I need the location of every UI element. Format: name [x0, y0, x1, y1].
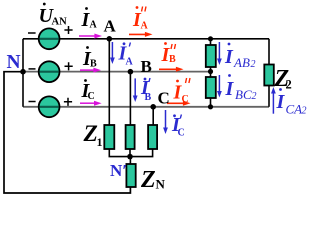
wire Z2 branch	[268, 39, 270, 65]
svg-text:N: N	[156, 176, 166, 191]
svg-text:B: B	[169, 54, 176, 65]
svg-text:B: B	[141, 57, 152, 76]
svg-text:I: I	[224, 46, 234, 68]
svg-text:N: N	[7, 52, 21, 73]
wire Z1 mid stub	[129, 149, 131, 157]
impedance Z1 phase A	[104, 125, 114, 149]
svg-text:C: C	[158, 89, 170, 108]
label IB	[82, 46, 97, 70]
svg-text:A: A	[90, 20, 98, 31]
arrow current IB'	[133, 78, 138, 102]
svg-text:AB: AB	[233, 55, 250, 70]
arrow current IB	[80, 68, 101, 73]
arrow current IB''	[159, 67, 184, 72]
label IA'	[118, 42, 134, 67]
svg-text:C: C	[182, 94, 189, 105]
arrow current ICA2	[271, 87, 276, 114]
arrow current IC	[80, 101, 102, 106]
svg-text:A: A	[104, 17, 117, 36]
svg-text:CA: CA	[286, 102, 303, 117]
node A	[107, 36, 113, 42]
svg-text:B: B	[145, 92, 152, 103]
wire drop A	[108, 39, 110, 126]
minus sign source B	[29, 68, 36, 70]
label Z2	[274, 66, 292, 92]
label IAB2	[224, 43, 256, 70]
wire ZN stub	[129, 157, 131, 164]
wire drop B	[129, 72, 131, 126]
svg-text:N′: N′	[110, 161, 127, 180]
svg-text:AN: AN	[52, 17, 68, 28]
label IA''	[132, 6, 149, 31]
svg-text:B: B	[90, 59, 97, 70]
label UAN	[39, 3, 68, 28]
svg-text:C: C	[88, 91, 95, 102]
svg-text:C: C	[178, 128, 185, 139]
impedance Z2	[264, 65, 274, 86]
voltage source UBN	[39, 61, 60, 82]
node C	[150, 104, 156, 110]
label ZN	[140, 167, 166, 193]
wire left bus N	[22, 39, 24, 107]
impedance ZBC2	[206, 77, 216, 98]
minus sign source A	[28, 32, 36, 34]
wire C row	[23, 106, 269, 108]
label IB'	[140, 77, 152, 103]
label IA	[81, 7, 98, 31]
junction mid right	[208, 69, 213, 74]
wire neutral loop	[4, 72, 130, 193]
wire right column stubs	[210, 39, 212, 45]
wire B row	[23, 71, 211, 73]
plus sign source B	[65, 62, 73, 70]
svg-text:2: 2	[252, 91, 257, 102]
svg-text:A: A	[126, 57, 134, 68]
svg-text:2: 2	[251, 59, 256, 70]
wire A row	[23, 38, 269, 40]
junction bottom right	[208, 104, 213, 109]
impedance Z1 phase B	[126, 125, 135, 149]
junction top right	[208, 36, 213, 41]
label IC''	[173, 78, 191, 105]
plus sign source A	[64, 26, 72, 34]
impedance ZAB2	[206, 45, 216, 67]
label IC	[81, 79, 95, 102]
node B	[128, 69, 134, 75]
impedance Z1 phase C	[148, 125, 157, 149]
svg-text:I: I	[225, 78, 235, 100]
svg-text:2: 2	[302, 106, 307, 117]
label IC'	[171, 114, 185, 139]
label Z1	[83, 121, 103, 149]
wire Z1 bottom bus	[109, 149, 152, 157]
wire drop C	[152, 107, 154, 126]
svg-text:A: A	[141, 21, 149, 32]
arrow current IC'	[163, 110, 168, 134]
svg-text:2: 2	[286, 78, 292, 92]
arrow current IC''	[167, 101, 191, 106]
voltage source UCN	[39, 96, 60, 117]
arrow current IAB2	[217, 42, 222, 65]
minus sign source C	[29, 101, 36, 103]
svg-text:BC: BC	[235, 87, 252, 102]
voltage source UAN	[39, 28, 60, 49]
label IB''	[161, 42, 177, 66]
svg-text:I: I	[276, 91, 286, 113]
impedance ZN	[126, 164, 135, 187]
svg-text:1: 1	[97, 135, 103, 149]
label IBC2	[225, 74, 257, 102]
arrow current IBC2	[217, 75, 222, 98]
node N	[20, 69, 26, 75]
arrow current IA''	[129, 32, 153, 37]
label ICA2	[276, 88, 307, 116]
arrow current IA	[79, 34, 102, 39]
arrow current IA'	[110, 42, 115, 64]
plus sign source C	[64, 98, 72, 106]
junction neutral star	[127, 154, 133, 160]
svg-text:Z: Z	[140, 167, 156, 193]
